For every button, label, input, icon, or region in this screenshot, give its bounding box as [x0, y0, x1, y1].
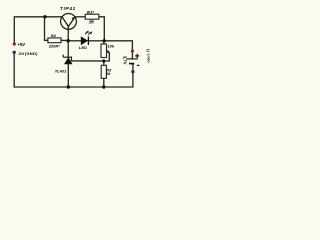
- svg-text:LED: LED: [79, 45, 87, 50]
- svg-text:3,7V: 3,7V: [123, 56, 128, 65]
- svg-text:220R*: 220R*: [48, 44, 61, 49]
- svg-text:U: U: [146, 49, 151, 52]
- svg-text:3R: 3R: [89, 20, 94, 25]
- svg-text:10k: 10k: [108, 43, 115, 48]
- svg-text:TL431: TL431: [55, 68, 67, 73]
- svg-text:Li-Ion: Li-Ion: [147, 54, 151, 63]
- svg-text:TIP41: TIP41: [60, 6, 76, 11]
- svg-text:+5V: +5V: [18, 42, 26, 47]
- svg-text:-5V(GND): -5V(GND): [18, 51, 39, 56]
- svg-text:R1*: R1*: [87, 10, 94, 15]
